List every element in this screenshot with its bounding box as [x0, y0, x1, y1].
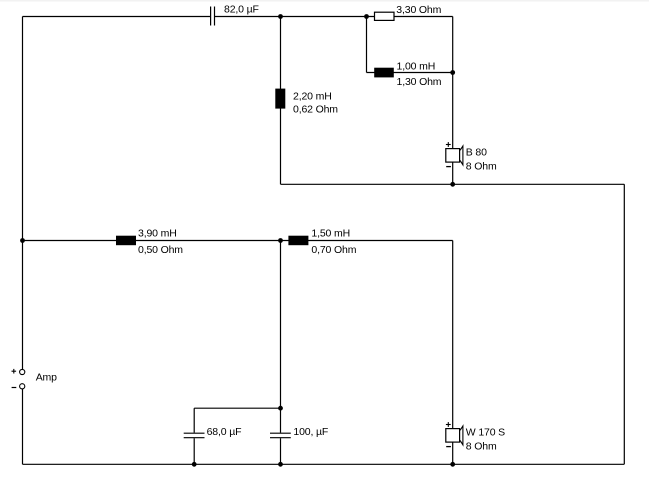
- node bottom right cap: [278, 462, 283, 467]
- svg-text:82,0 µF: 82,0 µF: [224, 4, 259, 16]
- node bottom left cap: [192, 462, 197, 467]
- amp plus terminal: [20, 369, 25, 374]
- svg-text:8 Ohm: 8 Ohm: [466, 441, 497, 453]
- svg-text:3,30 Ohm: 3,30 Ohm: [396, 4, 441, 16]
- svg-text:Amp: Amp: [36, 372, 57, 384]
- speaker W 170 S: [446, 422, 463, 447]
- wire left cap upper lead: [193, 408, 195, 433]
- svg-text:B 80: B 80: [466, 147, 487, 159]
- wire shunt cap vertical: [280, 241, 282, 433]
- inductor L4 1,50 mH: [288, 236, 308, 246]
- svg-text:100, µF: 100, µF: [293, 426, 328, 438]
- svg-text:0,70 Ohm: 0,70 Ohm: [311, 244, 356, 256]
- svg-text:1,50 mH: 1,50 mH: [311, 227, 350, 239]
- svg-text:1,00 mH: 1,00 mH: [397, 60, 436, 72]
- wire resistor to right corner: [394, 16, 453, 18]
- resistor R1 3,30 Ohm: [375, 12, 395, 20]
- wire middle horizontal: [23, 240, 453, 242]
- svg-text:2,20 mH: 2,20 mH: [293, 91, 332, 103]
- wire left cap lower lead: [193, 438, 195, 464]
- node middle wire left: [20, 238, 25, 243]
- inductor L1 1,00 mH: [374, 68, 394, 78]
- node at x=366 top: [364, 14, 369, 19]
- svg-text:W 170 S: W 170 S: [466, 427, 505, 439]
- svg-text:68,0 µF: 68,0 µF: [207, 426, 242, 438]
- wire left vertical lower: [22, 389, 24, 464]
- inductor L3 3,90 mH: [116, 236, 136, 246]
- svg-text:8 Ohm: 8 Ohm: [466, 161, 497, 173]
- amp minus sign: [12, 387, 17, 389]
- wire down to woofer: [452, 241, 454, 429]
- inductor L2 2,20 mH: [275, 89, 285, 109]
- wire right cap lower lead: [280, 438, 282, 464]
- node bottom woofer: [450, 462, 455, 467]
- amp minus terminal: [20, 384, 25, 389]
- wire right vertical of RL pair: [452, 17, 454, 73]
- wire tweeter return horizontal: [281, 183, 625, 185]
- wire left vertical of RL pair: [366, 17, 368, 73]
- wire shunt vertical x=280: [280, 17, 282, 185]
- amp plus sign: [12, 369, 17, 374]
- node at x=280 top: [278, 14, 283, 19]
- wire right-side vertical: [623, 184, 625, 464]
- svg-text:1,30 Ohm: 1,30 Ohm: [397, 76, 442, 88]
- wire tweeter bottom: [452, 162, 454, 184]
- svg-text:3,90 mH: 3,90 mH: [138, 227, 177, 239]
- capacitor C3 100 uF: [270, 433, 291, 438]
- wire top-left horizontal: [23, 16, 211, 18]
- node cap branch top: [278, 406, 283, 411]
- node tweeter return: [450, 182, 455, 187]
- wire left vertical upper: [22, 17, 24, 370]
- capacitor C2 68,0 uF: [184, 433, 205, 438]
- wire cap to resistor: [215, 16, 375, 18]
- speaker B 80: [446, 142, 463, 167]
- svg-text:0,62 Ohm: 0,62 Ohm: [293, 104, 338, 116]
- svg-text:0,50 Ohm: 0,50 Ohm: [138, 244, 183, 256]
- wire inductor L1 row: [367, 72, 453, 74]
- capacitor C1 82,0 uF: [211, 7, 215, 26]
- node middle wire centre: [278, 238, 283, 243]
- node at RL right join: [450, 70, 455, 75]
- wire woofer bottom: [452, 442, 454, 464]
- wire down to tweeter: [452, 73, 454, 149]
- wire bottom horizontal: [23, 463, 625, 465]
- wire cap branch horizontal: [194, 407, 280, 409]
